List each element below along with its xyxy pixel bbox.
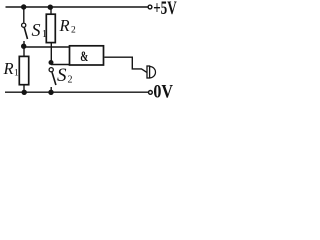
svg-text:&: & <box>80 49 88 65</box>
resistor R2 <box>46 14 55 42</box>
node junction dot S2-rail <box>48 90 53 95</box>
wire node Y to gate input 2 <box>51 64 69 66</box>
wire R2 bottom lead crossing node-X wire <box>50 43 52 61</box>
wire R1 top lead <box>23 47 25 57</box>
svg-text:2: 2 <box>71 26 76 36</box>
node Y junction dot <box>49 60 54 65</box>
wire R1 bottom lead <box>23 84 25 92</box>
wire R2 top lead <box>50 7 52 14</box>
node junction dot A (S1 top) <box>21 4 26 9</box>
node junction dot B (R2 top) <box>48 5 53 10</box>
svg-text:R: R <box>59 16 70 35</box>
svg-text:S: S <box>32 20 41 40</box>
switch S2 <box>49 68 56 91</box>
svg-text:2: 2 <box>68 75 73 86</box>
wire top +5V rail <box>6 6 148 8</box>
svg-text:+5V: +5V <box>153 0 177 19</box>
svg-text:1: 1 <box>14 69 19 79</box>
AND gate U1 box <box>70 46 104 65</box>
node X junction dot <box>21 44 26 49</box>
svg-text:0V: 0V <box>153 81 173 100</box>
resistor R1 <box>19 56 28 84</box>
wire node X to gate input 1 <box>24 46 70 48</box>
switch S1 <box>22 23 28 44</box>
wire bottom 0V rail <box>5 91 148 93</box>
speaker (earphone) <box>147 66 156 78</box>
wire S1 upper lead <box>23 7 25 23</box>
wire gate output <box>104 57 147 72</box>
svg-text:S: S <box>57 65 67 86</box>
node junction dot R1-rail <box>22 90 27 95</box>
terminal 0V open circle <box>149 91 153 95</box>
svg-text:R: R <box>3 59 14 78</box>
terminal +5V open circle <box>148 5 152 9</box>
